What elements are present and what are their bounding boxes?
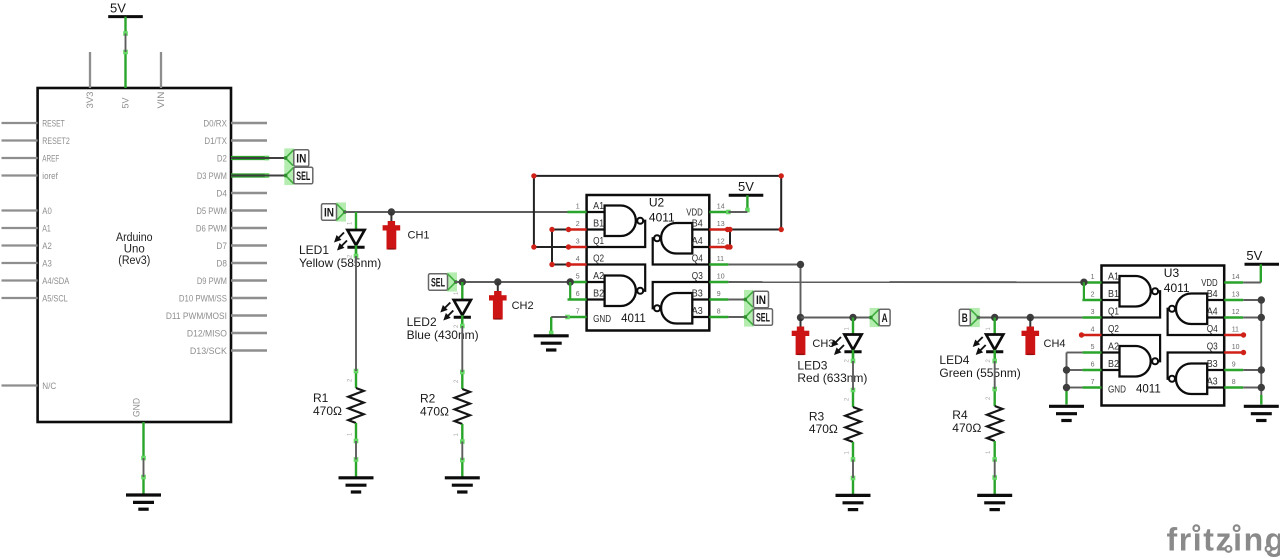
svg-text:D1/TX: D1/TX	[204, 136, 227, 147]
svg-text:VDD: VDD	[686, 207, 703, 218]
svg-text:A2: A2	[593, 271, 604, 282]
svg-text:D7: D7	[216, 241, 227, 252]
resistor R2 470	[420, 389, 470, 424]
svg-text:IN: IN	[756, 295, 766, 307]
svg-text:5: 5	[576, 274, 580, 281]
svg-text:4011: 4011	[1136, 383, 1161, 395]
wire U2 VDD to 5V	[726, 208, 750, 215]
svg-text:D12/MISO: D12/MISO	[187, 328, 227, 339]
svg-text:4: 4	[576, 256, 580, 263]
svg-text:D0/RX: D0/RX	[203, 118, 227, 129]
net label SEL (at U2 A3)	[743, 307, 772, 326]
probe CH2	[489, 282, 534, 320]
svg-text:470Ω: 470Ω	[420, 404, 449, 418]
svg-text:ioref: ioref	[42, 171, 58, 182]
Arduino Uno board outline	[38, 88, 231, 422]
svg-text:Q4: Q4	[1207, 324, 1218, 335]
svg-text:A4: A4	[692, 236, 703, 247]
svg-text:IN: IN	[324, 207, 334, 219]
svg-text:10: 10	[717, 274, 725, 281]
svg-text:12: 12	[1232, 309, 1240, 316]
junction at LED3 tap	[849, 314, 856, 321]
svg-text:11: 11	[1232, 327, 1239, 334]
svg-text:470Ω: 470Ω	[313, 404, 342, 418]
svg-text:1: 1	[1091, 274, 1095, 281]
junction at CH2 tap	[494, 278, 501, 285]
wire SEL flag to U2 pin A2	[455, 281, 571, 283]
svg-text:A3: A3	[692, 306, 703, 317]
LED4 (green)	[939, 318, 1020, 380]
svg-text:A3: A3	[1207, 377, 1218, 388]
net label B (source)	[959, 308, 980, 327]
svg-text:1: 1	[576, 204, 580, 211]
junction Q4 corner	[797, 261, 804, 268]
svg-text:3: 3	[576, 239, 580, 246]
wire B1-Q2 tie (left of U2)	[552, 230, 568, 265]
svg-text:N/C: N/C	[42, 381, 56, 392]
LED3 (red)	[797, 318, 867, 386]
svg-text:5V: 5V	[738, 179, 754, 194]
wire Q3 to U3 A1	[728, 281, 1084, 283]
wire R2 to ground	[454, 424, 465, 477]
svg-text:2: 2	[576, 221, 580, 228]
probe CH3	[792, 318, 835, 356]
wire R4 to ground	[986, 441, 997, 494]
svg-text:Uno: Uno	[124, 243, 145, 255]
junction at CH3 tap	[797, 314, 804, 321]
wire LED3 to R3	[845, 353, 856, 408]
svg-text:D2: D2	[217, 153, 227, 164]
Arduino top pins 3V3 5V VIN	[85, 52, 167, 109]
junction U3 B2	[1063, 366, 1070, 373]
svg-text:A: A	[882, 313, 888, 325]
ground (R2)	[445, 478, 480, 492]
svg-text:Q1: Q1	[593, 236, 604, 247]
svg-text:A4: A4	[1207, 307, 1218, 318]
svg-text:9: 9	[717, 291, 721, 298]
svg-text:A1: A1	[593, 201, 604, 212]
red junction dots	[531, 173, 784, 267]
junction at LED4 tap	[991, 314, 998, 321]
wire R1 to ground	[348, 423, 359, 477]
wire A net horizontal	[801, 317, 871, 319]
svg-text:2: 2	[1091, 292, 1095, 299]
wire Arduino GND to ground	[141, 456, 146, 494]
svg-text:D10 PWM/SS: D10 PWM/SS	[179, 293, 227, 304]
wire B3 to IN flag	[728, 299, 745, 301]
svg-text:CH2: CH2	[512, 300, 534, 312]
svg-text:7: 7	[1091, 379, 1095, 386]
svg-text:VDD: VDD	[1201, 278, 1218, 289]
svg-text:Q2: Q2	[593, 254, 604, 265]
svg-text:10: 10	[1232, 344, 1240, 351]
svg-text:IN: IN	[296, 153, 306, 165]
wire A3 to SEL flag	[728, 316, 745, 318]
svg-text:Blue (430nm): Blue (430nm)	[407, 328, 479, 342]
svg-text:(Rev3): (Rev3)	[118, 255, 150, 267]
svg-text:4011: 4011	[1164, 281, 1190, 295]
svg-text:470Ω: 470Ω	[809, 422, 838, 436]
wire U3 A1-B1 tie	[1083, 282, 1085, 300]
junction U3 A4	[1258, 314, 1265, 321]
svg-text:B3: B3	[1207, 359, 1218, 370]
svg-text:3V3: 3V3	[85, 92, 96, 109]
svg-text:U3: U3	[1164, 266, 1180, 280]
svg-text:6: 6	[1091, 362, 1095, 369]
svg-text:D13/SCK: D13/SCK	[190, 346, 228, 357]
svg-text:D3 PWM: D3 PWM	[197, 171, 227, 182]
svg-text:RESET: RESET	[42, 118, 65, 129]
wire 5V symbol to Arduino 5V pin	[123, 31, 128, 54]
red stub ends U3 Q4 Q3	[1241, 332, 1246, 355]
svg-text:CH4: CH4	[1044, 338, 1066, 350]
svg-text:D6 PWM: D6 PWM	[196, 223, 227, 234]
svg-text:B1: B1	[593, 219, 604, 230]
svg-text:SEL: SEL	[431, 277, 445, 289]
ground (R1)	[339, 478, 374, 492]
junction U3 A3	[1258, 384, 1265, 391]
svg-text:6: 6	[576, 291, 580, 298]
svg-text:Arduino: Arduino	[116, 232, 153, 244]
ground (R3)	[836, 495, 871, 509]
svg-text:U2: U2	[649, 195, 665, 209]
svg-text:D4: D4	[216, 188, 227, 199]
svg-text:7: 7	[576, 309, 580, 316]
net label SEL (source, to LED2 wire)	[429, 272, 458, 291]
svg-text:A2: A2	[1108, 342, 1119, 353]
svg-text:CH3: CH3	[812, 338, 834, 350]
junction at LED2 tap	[459, 278, 466, 285]
svg-text:D5 PWM: D5 PWM	[196, 206, 227, 217]
svg-text:SEL: SEL	[756, 312, 770, 324]
svg-text:A0: A0	[42, 206, 52, 217]
svg-text:B4: B4	[1207, 289, 1218, 300]
IC U2 4011 quad NAND	[568, 195, 729, 331]
ground (U3 left)	[1049, 406, 1084, 420]
svg-text:GND: GND	[1108, 384, 1126, 395]
wire B flag to U3 Q1	[977, 317, 1083, 319]
svg-text:B1: B1	[1108, 289, 1119, 300]
svg-text:D9 PWM: D9 PWM	[197, 276, 227, 287]
svg-text:RESET2: RESET2	[42, 136, 70, 147]
power symbol 5V (U2)	[729, 179, 764, 212]
svg-text:Red (633nm): Red (633nm)	[797, 371, 867, 385]
svg-text:Q2: Q2	[1108, 324, 1119, 335]
ground (R4)	[977, 495, 1012, 509]
power symbol 5V (U3)	[1245, 248, 1280, 282]
svg-text:12: 12	[717, 239, 725, 246]
junction U3 GND	[1063, 384, 1070, 391]
svg-text:A1: A1	[42, 223, 51, 234]
wire U2 GND to ground	[549, 315, 570, 336]
net label SEL (at D3)	[284, 166, 313, 185]
net label IN (source, to LED1 wire)	[322, 202, 347, 221]
net label IN (at D2)	[284, 148, 309, 167]
svg-text:A3: A3	[42, 258, 52, 269]
Arduino left pin headers (RESET..N/C)	[2, 118, 70, 392]
wire R3 to ground	[845, 442, 856, 494]
svg-text:GND: GND	[132, 398, 143, 417]
wire D2 to IN flag	[231, 157, 286, 159]
wire LED2 to R2	[454, 318, 465, 390]
svg-text:fritzing: fritzing	[1167, 522, 1280, 558]
resistor R1 470	[313, 388, 364, 423]
svg-text:4011: 4011	[649, 210, 675, 224]
probe CH4	[1022, 318, 1066, 356]
wire IN flag to U2 pin A1	[344, 211, 568, 213]
svg-text:Yellow (585nm): Yellow (585nm)	[299, 256, 381, 270]
svg-text:5: 5	[1091, 344, 1095, 351]
ground (U3 right)	[1244, 406, 1279, 420]
svg-text:VIN: VIN	[156, 91, 167, 108]
svg-text:CH1: CH1	[408, 229, 430, 241]
ground (U2)	[534, 336, 569, 350]
svg-text:Q4: Q4	[692, 254, 703, 265]
IC U3 4011 quad NAND	[1082, 266, 1243, 406]
svg-text:4: 4	[1091, 327, 1095, 334]
wire U3 VDD to 5V	[1243, 282, 1261, 284]
resistor R3 470	[809, 407, 861, 442]
wire A2-B2 tie	[567, 278, 574, 299]
svg-text:B: B	[962, 313, 968, 325]
probe CH1	[383, 212, 430, 250]
svg-text:5V: 5V	[1246, 248, 1262, 263]
Arduino bottom GND pin	[132, 398, 144, 458]
svg-text:14: 14	[1232, 274, 1240, 281]
power symbol 5V (Arduino)	[108, 0, 143, 33]
junction U3 B4	[1258, 296, 1265, 303]
svg-text:13: 13	[1232, 292, 1240, 299]
junction at CH1 tap	[388, 208, 395, 215]
wire Q4 to A net	[728, 265, 800, 318]
svg-text:3: 3	[1091, 309, 1095, 316]
svg-text:Q1: Q1	[1108, 307, 1119, 318]
net label IN (at U2 B3)	[743, 290, 768, 309]
net label A	[869, 308, 890, 327]
svg-text:A1: A1	[1108, 272, 1119, 283]
junction at CH4 tap	[1027, 314, 1034, 321]
svg-text:8: 8	[717, 309, 721, 316]
svg-text:Green (555nm): Green (555nm)	[939, 366, 1020, 380]
svg-text:Q3: Q3	[1207, 342, 1218, 353]
svg-text:B2: B2	[1108, 359, 1119, 370]
fritzing watermark	[1167, 522, 1280, 558]
svg-text:D8: D8	[216, 258, 227, 269]
wire LED1 to R1	[348, 248, 359, 389]
svg-text:B4: B4	[692, 219, 703, 230]
svg-text:5V: 5V	[121, 97, 132, 109]
LED2 (blue)	[407, 282, 479, 342]
LED1 (yellow)	[299, 212, 381, 270]
resistor R4 470	[952, 406, 1002, 441]
svg-text:11: 11	[717, 256, 724, 263]
svg-text:13: 13	[717, 221, 725, 228]
svg-text:5V: 5V	[110, 0, 126, 15]
wire LED4 to R4	[986, 353, 997, 407]
wire Q1 up-over to B4/A4	[534, 176, 781, 247]
svg-text:SEL: SEL	[296, 171, 310, 183]
svg-text:14: 14	[717, 204, 725, 211]
junction U3 A1	[1080, 279, 1087, 286]
wire U3 A2/B2/GND to ground	[1067, 353, 1083, 405]
ground (Arduino GND)	[126, 495, 161, 509]
wire U3 B4/A4/B3/A3 to ground	[1243, 300, 1261, 405]
svg-text:D11 PWM/MOSI: D11 PWM/MOSI	[166, 311, 227, 322]
svg-text:470Ω: 470Ω	[952, 421, 981, 435]
svg-text:A4/SDA: A4/SDA	[42, 276, 70, 287]
red stub U3 Q2	[1079, 332, 1084, 337]
Arduino right pin headers (D0..D13)	[166, 118, 269, 356]
junction U3 B3	[1258, 366, 1265, 373]
svg-text:B2: B2	[593, 289, 604, 300]
svg-text:8: 8	[1232, 379, 1236, 386]
svg-text:Q3: Q3	[692, 271, 703, 282]
svg-text:GND: GND	[593, 314, 611, 325]
svg-text:AREF: AREF	[42, 153, 59, 164]
svg-text:4011: 4011	[621, 313, 646, 325]
svg-text:A2: A2	[42, 241, 52, 252]
svg-text:B3: B3	[692, 289, 703, 300]
wire D3 to SEL flag	[231, 175, 286, 177]
svg-text:9: 9	[1232, 362, 1236, 369]
svg-text:A5/SCL: A5/SCL	[42, 293, 68, 304]
